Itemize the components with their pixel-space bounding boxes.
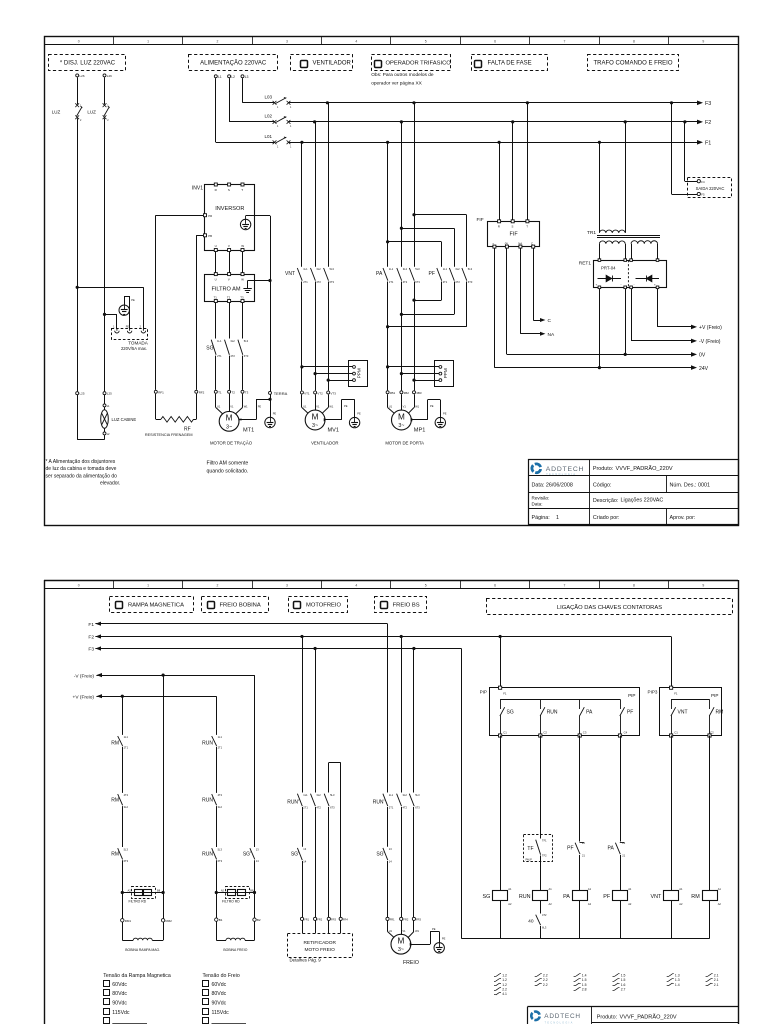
svg-text:3~: 3~: [312, 423, 318, 429]
contact cross references VNT: [667, 974, 680, 987]
svg-text:2.7: 2.7: [621, 987, 626, 991]
svg-text:A2: A2: [628, 902, 632, 906]
svg-text:RM: RM: [716, 710, 724, 716]
svg-text:3L2: 3L2: [403, 267, 408, 271]
svg-text:U1: U1: [389, 405, 393, 409]
svg-text:operador ver página XX: operador ver página XX: [371, 80, 422, 86]
svg-text:TOMADA: TOMADA: [128, 341, 149, 346]
ground symbol of filter: [243, 279, 271, 417]
contact RUN 1: [202, 735, 222, 749]
wire PF interlock to PA coil: [579, 855, 581, 891]
svg-text:4T2: 4T2: [218, 793, 223, 797]
wire RUN prime to SG prime motofreio: [302, 807, 304, 847]
svg-text:A1: A1: [628, 887, 632, 891]
wire F3 row: [95, 647, 461, 650]
svg-text:FREIO BOBINA: FREIO BOBINA: [220, 602, 261, 608]
svg-text:M: M: [398, 412, 405, 421]
svg-text:* DISJ. LUZ 220VAC: * DISJ. LUZ 220VAC: [60, 61, 116, 67]
title block texts sheet2: [597, 1013, 677, 1020]
svg-text:A2: A2: [679, 902, 683, 906]
svg-text:22: 22: [622, 841, 625, 845]
wire RUN prime BS to SG prime BS: [387, 807, 389, 847]
svg-text:W1: W1: [244, 405, 248, 409]
wire PIP3 C1 to VNT coil: [671, 736, 673, 891]
svg-text:3L2: 3L2: [230, 339, 235, 343]
svg-text:PE: PE: [430, 404, 434, 408]
wire VNT coil to rail: [671, 900, 673, 939]
wire tomada pin2 feed: [77, 287, 143, 329]
wire F2 to RUN prime pole1: [302, 637, 304, 793]
wire rail F2: [289, 121, 698, 123]
svg-text:FIF: FIF: [510, 232, 519, 238]
svg-text:3L2: 3L2: [316, 267, 321, 271]
wire motor MT1 PE: [239, 398, 271, 420]
svg-text:220V/5A max.: 220V/5A max.: [121, 346, 147, 351]
node +V Freio feed: [73, 694, 102, 700]
svg-text:2T1: 2T1: [303, 280, 308, 284]
socket outlet TOMADA 220V/5A: [112, 326, 149, 351]
coil PF: [603, 887, 632, 906]
svg-text:-V (Freio): -V (Freio): [74, 673, 95, 679]
svg-text:R: R: [498, 225, 500, 229]
wire F2 row: [95, 635, 671, 638]
wires rails to VNT contactor: [302, 103, 329, 267]
svg-text:Aprov. por:: Aprov. por:: [670, 515, 696, 521]
section label box FREIO BS: [375, 597, 427, 613]
svg-text:PE: PE: [344, 404, 348, 408]
contact cross references PF: [613, 974, 626, 992]
svg-text:MV1: MV1: [328, 428, 340, 434]
svg-text:L02: L02: [264, 114, 272, 119]
svg-text:RUN: RUN: [202, 852, 213, 858]
svg-text:6T3: 6T3: [468, 280, 473, 284]
wires FR to motor FREIO: [388, 921, 420, 940]
wire luz left drop: [76, 118, 79, 391]
svg-text:1.3: 1.3: [675, 974, 680, 978]
breaker L01: [216, 134, 292, 149]
svg-text:2T1: 2T1: [218, 745, 223, 749]
svg-text:VT3: VT3: [330, 391, 336, 395]
svg-text:14: 14: [303, 860, 306, 864]
svg-text:MT1: MT1: [243, 428, 254, 434]
svg-text:90Vdc: 90Vdc: [212, 1001, 227, 1007]
svg-text:PF: PF: [627, 710, 633, 716]
wire FR4 jog: [329, 763, 341, 918]
svg-text:6T3: 6T3: [330, 280, 335, 284]
section label box OPERADOR TRIFASICO: [372, 55, 452, 71]
svg-text:1.2: 1.2: [502, 978, 507, 982]
svg-text:5L3: 5L3: [468, 267, 473, 271]
terminal B2: [253, 918, 261, 922]
wire rail F3: [289, 102, 698, 104]
svg-text:RF1: RF1: [158, 390, 164, 394]
svg-text:5L3: 5L3: [330, 267, 335, 271]
node F3 arrow: [697, 101, 711, 107]
svg-text:1L1: 1L1: [303, 267, 308, 271]
svg-text:5L3: 5L3: [244, 339, 249, 343]
lamp LUZ CABINE: [101, 407, 137, 428]
wire L3 drop: [242, 78, 244, 103]
svg-text:VT1: VT1: [304, 391, 310, 395]
svg-text:5L3: 5L3: [415, 267, 420, 271]
terminal L25 left: [76, 392, 85, 396]
svg-text:4T2: 4T2: [542, 913, 547, 917]
svg-text:Data:: Data:: [532, 501, 543, 506]
svg-text:PA: PA: [376, 271, 383, 277]
svg-text:RM: RM: [111, 798, 119, 804]
checklist Tensao do Freio: [203, 973, 247, 1023]
note Obs operador: [371, 72, 434, 86]
svg-text:FILTRO AM: FILTRO AM: [211, 286, 240, 292]
wire RET1 to +V Freio arrow: [658, 289, 723, 332]
terminals FR1 FR2 FR3 FR4: [300, 917, 348, 921]
svg-text:2.1: 2.1: [714, 983, 719, 987]
svg-text:1.6: 1.6: [621, 983, 626, 987]
svg-text:x2: x2: [107, 432, 110, 436]
svg-text:4T2: 4T2: [455, 280, 460, 284]
svg-text:1.5: 1.5: [621, 974, 626, 978]
section label box DISJ LUZ 220VAC: [49, 55, 126, 71]
svg-text:1.5: 1.5: [582, 978, 587, 982]
wire PIP3 C2 to RM coil: [709, 736, 711, 891]
aux output box SAIDA 220VAC: [688, 178, 732, 198]
earth symbol motor FREIO: [434, 937, 446, 953]
wire -V row: [96, 674, 254, 677]
svg-text:PIP: PIP: [711, 693, 718, 698]
svg-text:1L1: 1L1: [389, 793, 394, 797]
svg-text:1: 1: [277, 106, 279, 109]
wires VT to motor MV1: [302, 394, 334, 414]
section label box TRAFO COMANDO E FREIO: [588, 55, 679, 71]
svg-text:T: T: [241, 188, 243, 192]
title block sheet1: [528, 459, 738, 524]
svg-text:4.1: 4.1: [502, 992, 507, 996]
svg-text:V1: V1: [230, 405, 234, 409]
logo ADDTECH sheet1: [532, 464, 584, 476]
filter FILTRO RD freio: [216, 887, 254, 904]
svg-text:SG: SG: [483, 894, 491, 900]
svg-text:RUN': RUN': [287, 800, 299, 806]
svg-text:RUN: RUN: [519, 894, 531, 900]
wires PF crossover to PA outputs: [386, 282, 467, 329]
wires to FR terminals motofreio: [303, 807, 329, 917]
section label box FALTA DE FASE: [472, 55, 548, 71]
svg-text:A2: A2: [508, 902, 512, 906]
contact SG prime freio BS: [376, 847, 392, 864]
svg-text:TF2: TF2: [542, 854, 547, 858]
svg-text:VENTILADOR: VENTILADOR: [311, 441, 338, 446]
svg-text:* A Alimentação dos disjuntore: * A Alimentação dos disjuntores: [46, 459, 116, 465]
svg-text:RM: RM: [111, 852, 119, 858]
svg-text:PE: PE: [131, 298, 135, 302]
svg-text:M: M: [312, 412, 319, 421]
svg-text:INVERSOR: INVERSOR: [215, 206, 244, 212]
svg-text:Código:: Código:: [593, 483, 612, 489]
svg-text:6: 6: [494, 584, 496, 588]
svg-text:INV1: INV1: [192, 186, 203, 192]
svg-text:4T2: 4T2: [316, 280, 321, 284]
section label box FREIO BOBINA: [202, 597, 269, 613]
sheet 1 ruler strip: [44, 36, 738, 45]
wire motor MV1 PE: [325, 399, 355, 421]
svg-text:80Vdc: 80Vdc: [112, 991, 127, 997]
svg-text:2T1: 2T1: [389, 280, 394, 284]
svg-text:B1: B1: [219, 918, 223, 922]
junction dots rail F1: [300, 141, 601, 144]
svg-text:4T2: 4T2: [403, 806, 408, 810]
wire +V to RM contacts: [122, 696, 124, 735]
svg-text:2: 2: [107, 119, 109, 122]
wire luz right drop: [103, 118, 106, 391]
svg-text:U: U: [215, 244, 217, 248]
svg-text:PE: PE: [442, 937, 446, 941]
svg-text:2.8: 2.8: [582, 987, 587, 991]
svg-text:RM: RM: [111, 741, 119, 747]
contactor contacts VNT: [285, 267, 335, 284]
svg-text:TF1: TF1: [542, 839, 547, 843]
svg-text:0: 0: [78, 584, 80, 588]
svg-text:V1: V1: [316, 405, 320, 409]
svg-text:3~: 3~: [398, 947, 404, 953]
svg-text:2: 2: [217, 584, 219, 588]
wire RUN coil to 40 contact: [540, 900, 542, 914]
svg-text:U1: U1: [303, 405, 307, 409]
wire 0V rail arrow: [507, 289, 706, 359]
svg-text:4T2: 4T2: [316, 806, 321, 810]
svg-text:R: R: [215, 188, 218, 192]
svg-text:1.2: 1.2: [502, 983, 507, 987]
svg-text:S: S: [512, 225, 514, 229]
svg-text:M: M: [226, 414, 233, 423]
wire SG coil to rail: [500, 900, 502, 939]
svg-text:6T3: 6T3: [415, 806, 420, 810]
svg-text:5L3: 5L3: [218, 847, 223, 851]
title block sheet2: [527, 1007, 738, 1024]
svg-text:1.2: 1.2: [502, 974, 507, 978]
logo ADDTECH sheet2: [531, 1012, 581, 1024]
wire U V W inverter to filter: [216, 252, 243, 275]
coil BOBINA FREIO: [216, 921, 254, 952]
wire F2 to RUN prime BS pole2: [401, 637, 403, 793]
contact cross references RUN: [535, 974, 548, 987]
svg-text:W: W: [241, 244, 244, 248]
svg-text:A1: A1: [718, 887, 722, 891]
contactor contacts RUN prime freio BS: [373, 793, 421, 810]
node F2 feed: [88, 634, 101, 640]
section label box ALIMENTACAO 220VAC: [189, 55, 278, 71]
svg-text:BOBINA FREIO: BOBINA FREIO: [223, 948, 247, 952]
svg-text:L26: L26: [107, 74, 112, 78]
svg-text:FALTA DE FASE: FALTA DE FASE: [488, 61, 532, 67]
svg-text:FR1: FR1: [304, 918, 309, 922]
svg-text:U1: U1: [389, 929, 393, 933]
svg-text:3L2: 3L2: [124, 805, 129, 809]
svg-text:T: T: [526, 225, 528, 229]
svg-text:3L2: 3L2: [403, 793, 408, 797]
terminal RF2: [195, 390, 205, 394]
terminal L2: [228, 75, 236, 79]
svg-text:W1: W1: [329, 405, 333, 409]
svg-text:3B2: 3B2: [404, 391, 410, 395]
svg-text:4: 4: [355, 584, 357, 588]
svg-text:RUN: RUN: [202, 741, 213, 747]
svg-text:A2: A2: [549, 902, 553, 906]
svg-text:2.2: 2.2: [543, 974, 548, 978]
wire F1 row: [95, 623, 387, 625]
svg-text:80Vdc: 80Vdc: [212, 991, 227, 997]
op-amp-block inverter INV1: [192, 183, 255, 252]
section label box LIGACAO DAS CHAVES CONTATORAS: [487, 599, 733, 615]
svg-text:9: 9: [702, 584, 704, 588]
svg-text:13: 13: [389, 847, 392, 851]
svg-text:2.2: 2.2: [502, 987, 507, 991]
terminal L25 right: [103, 392, 112, 396]
wires rails to FIF: [500, 103, 528, 222]
terminal L26 left: [76, 74, 85, 78]
svg-text:RUN': RUN': [373, 800, 385, 806]
svg-text:+: +: [596, 282, 598, 286]
svg-text:PE: PE: [432, 927, 436, 931]
svg-text:2T1: 2T1: [217, 354, 222, 358]
svg-text:A2: A2: [588, 902, 592, 906]
note filtro AM somente: [207, 461, 249, 475]
coil RM: [691, 887, 721, 906]
svg-text:L25: L25: [107, 392, 112, 396]
svg-text:Tensão da Rampa Magnetica: Tensão da Rampa Magnetica: [103, 973, 171, 979]
terminals VT1 VT2 VT3: [300, 391, 336, 395]
svg-text:14: 14: [256, 859, 259, 863]
svg-text:RUN: RUN: [547, 710, 558, 716]
earth symbol tomada PE: [119, 296, 135, 329]
terminal L1: [214, 75, 222, 79]
wire -V pair drop freio: [254, 675, 256, 847]
svg-text:x1: x1: [107, 404, 110, 408]
filter FILTRO RD rampa: [122, 887, 163, 904]
svg-text:2.2: 2.2: [543, 983, 548, 987]
coil BOBINA RAMPA MAG: [122, 922, 163, 952]
svg-text:6T3: 6T3: [218, 859, 223, 863]
svg-text:RF: RF: [184, 427, 191, 433]
node F1 feed: [88, 622, 101, 628]
node -V Freio feed: [74, 673, 102, 679]
svg-text:1L1: 1L1: [218, 735, 223, 739]
wire 40 contact to rail: [540, 926, 542, 939]
svg-text:ser separado da alimentação do: ser separado da alimentação do: [46, 473, 118, 479]
svg-text:L03: L03: [264, 95, 272, 100]
svg-text:6T3: 6T3: [244, 354, 249, 358]
svg-text:PE: PE: [258, 404, 262, 408]
svg-text:3~: 3~: [398, 423, 404, 429]
wire C4 to PA interlock: [620, 736, 622, 842]
svg-text:1: 1: [147, 39, 149, 43]
svg-text:0: 0: [78, 39, 80, 43]
svg-text:W1: W1: [415, 405, 419, 409]
terminal RM2: [161, 919, 172, 923]
contact cross references PA: [574, 974, 587, 992]
svg-text:1: 1: [290, 146, 292, 149]
wire PB to RF2: [196, 235, 203, 390]
contact RUN 2: [202, 793, 222, 809]
svg-text:FR2: FR2: [317, 918, 322, 922]
svg-text:9: 9: [702, 39, 704, 43]
wire FIF 24V output: [494, 248, 496, 368]
svg-text:C: C: [548, 318, 552, 324]
svg-text:A2: A2: [718, 902, 722, 906]
svg-text:PIP3: PIP3: [648, 690, 658, 695]
terminal x2: [103, 428, 110, 436]
svg-text:4T2: 4T2: [403, 280, 408, 284]
svg-text:6L3: 6L3: [542, 925, 547, 929]
svg-text:0V: 0V: [505, 241, 509, 245]
svg-text:3L2: 3L2: [218, 805, 223, 809]
contact 40: [528, 913, 547, 930]
svg-text:1L1: 1L1: [303, 793, 308, 797]
svg-text:U1: U1: [217, 405, 221, 409]
svg-text:13: 13: [256, 847, 259, 851]
wire TF to RUN coil: [540, 856, 542, 891]
svg-text:21: 21: [622, 853, 625, 857]
coil VNT: [651, 887, 684, 906]
svg-text:3B1: 3B1: [390, 391, 396, 395]
svg-text:PAUP: PAUP: [526, 858, 533, 861]
terminals FR1 FR2 FR3 freio BS: [386, 807, 422, 922]
svg-text:S: S: [228, 188, 230, 192]
svg-text:2T1: 2T1: [303, 806, 308, 810]
svg-text:60Vdc: 60Vdc: [112, 982, 127, 988]
svg-text:quando solicitado.: quando solicitado.: [207, 468, 249, 474]
svg-text:LUZ CABINE: LUZ CABINE: [112, 417, 137, 422]
svg-text:F5: F5: [701, 193, 705, 197]
svg-text:FR1: FR1: [390, 918, 395, 922]
wire FIF 0V output: [506, 248, 508, 354]
svg-text:F1: F1: [674, 692, 678, 696]
svg-text:C3: C3: [583, 730, 587, 734]
svg-text:FR3: FR3: [331, 918, 336, 922]
motor FREIO: [391, 934, 419, 966]
contact SG apostrophe freio bobina: [243, 847, 259, 863]
transformer TR1: [587, 230, 660, 244]
svg-text:0V: 0V: [699, 353, 706, 359]
svg-text:Obs: Para outros modelos de: Obs: Para outros modelos de: [371, 72, 434, 78]
wire RUN3 to B1: [215, 860, 218, 918]
svg-text:C1: C1: [503, 730, 507, 734]
svg-text:2T1: 2T1: [124, 745, 129, 749]
wire C1 to SG coil: [500, 736, 502, 891]
motor MV1 VENTILADOR: [305, 410, 339, 445]
svg-text:RET1: RET1: [579, 260, 592, 266]
svg-text:1: 1: [290, 106, 292, 109]
wire motor FREIO PE: [411, 927, 440, 946]
wire RM coil to rail: [709, 900, 711, 939]
svg-text:F3: F3: [88, 647, 94, 653]
svg-text:SG': SG': [243, 852, 251, 858]
svg-text:7: 7: [564, 584, 566, 588]
svg-text:2: 2: [217, 39, 219, 43]
svg-text:Descrição:: Descrição:: [593, 498, 618, 504]
svg-text:U: U: [215, 278, 217, 282]
wire F3 to RUN prime BS pole3: [413, 649, 415, 793]
svg-text:2T1: 2T1: [443, 280, 448, 284]
svg-text:SG': SG': [291, 852, 299, 858]
section label box MOTOFREIO: [289, 597, 348, 613]
svg-text:4: 4: [355, 39, 357, 43]
svg-text:F3: F3: [705, 101, 711, 107]
svg-text:PR: PR: [208, 214, 212, 218]
svg-text:RETIFICADOR: RETIFICADOR: [303, 940, 336, 946]
wire inverter PE to terra line: [246, 216, 271, 281]
junction dots rail F2: [313, 120, 687, 123]
svg-text:LIGAÇÃO DAS CHAVES CONTATORAS: LIGAÇÃO DAS CHAVES CONTATORAS: [557, 604, 662, 611]
